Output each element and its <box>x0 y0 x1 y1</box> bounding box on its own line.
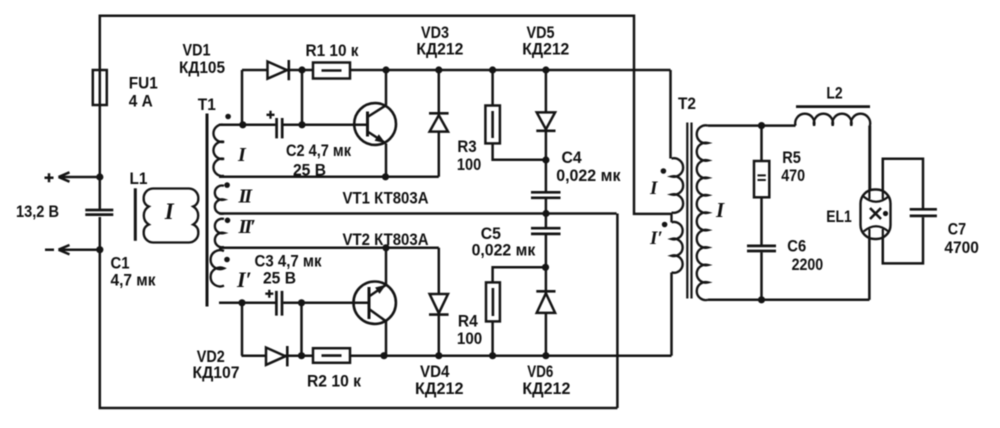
svg-text:C2 4,7 мк: C2 4,7 мк <box>286 141 351 160</box>
svg-text:100: 100 <box>457 329 482 348</box>
svg-text:I: I <box>237 144 247 166</box>
svg-text:T1: T1 <box>198 95 216 114</box>
svg-text:4,7 мк: 4,7 мк <box>111 270 156 289</box>
svg-text:II′: II′ <box>238 216 256 238</box>
svg-text:R3: R3 <box>457 137 476 156</box>
svg-text:КД105: КД105 <box>179 58 225 77</box>
svg-text:13,2 В: 13,2 В <box>16 202 59 221</box>
svg-text:T2: T2 <box>678 94 696 113</box>
svg-text:КД212: КД212 <box>522 40 569 59</box>
svg-text:4 А: 4 А <box>129 91 153 110</box>
svg-text:100: 100 <box>457 155 481 174</box>
svg-text:КД212: КД212 <box>522 379 570 398</box>
svg-text:4700: 4700 <box>944 238 979 257</box>
svg-text:КД212: КД212 <box>415 379 464 398</box>
svg-text:C4: C4 <box>562 148 583 167</box>
svg-text:I: I <box>649 178 658 199</box>
svg-text:2200: 2200 <box>792 255 824 274</box>
svg-text:VD1: VD1 <box>183 41 211 60</box>
svg-text:VT1 КТ803А: VT1 КТ803А <box>343 189 429 208</box>
svg-text:I′: I′ <box>236 267 252 292</box>
svg-text:I′: I′ <box>649 228 663 249</box>
svg-text:КД212: КД212 <box>416 40 463 59</box>
svg-text:R4: R4 <box>458 311 478 330</box>
svg-text:EL1: EL1 <box>826 207 852 226</box>
svg-text:L2: L2 <box>826 84 842 103</box>
svg-text:R5: R5 <box>782 148 801 167</box>
svg-text:L1: L1 <box>130 169 148 188</box>
svg-text:КД107: КД107 <box>193 363 240 382</box>
svg-text:C6: C6 <box>787 237 806 256</box>
svg-text:C7: C7 <box>948 219 966 238</box>
svg-text:VT2 КТ803А: VT2 КТ803А <box>343 230 429 249</box>
svg-text:25 В: 25 В <box>293 161 326 180</box>
svg-text:470: 470 <box>781 166 805 185</box>
svg-text:0,022 мк: 0,022 мк <box>472 240 536 259</box>
svg-text:I: I <box>715 198 725 222</box>
svg-text:R1 10 к: R1 10 к <box>306 41 359 60</box>
svg-text:25 В: 25 В <box>263 269 296 288</box>
svg-text:FU1: FU1 <box>129 74 158 93</box>
svg-text:I: I <box>164 199 175 224</box>
svg-text:0,022 мк: 0,022 мк <box>556 166 621 185</box>
svg-text:R2 10 к: R2 10 к <box>307 372 361 391</box>
